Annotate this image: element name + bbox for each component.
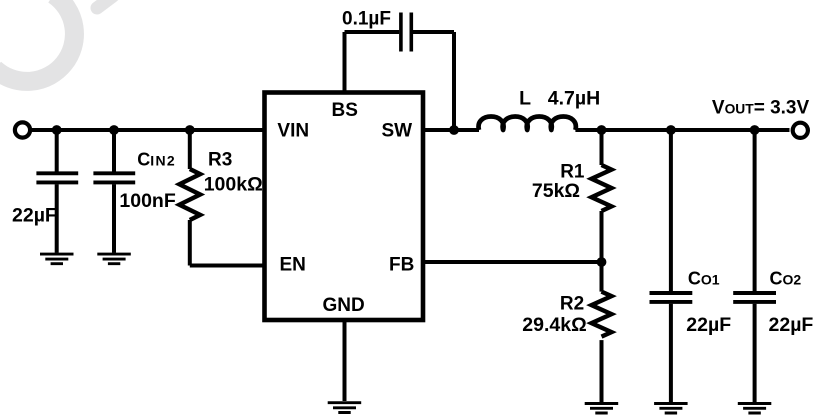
ground CIN1 [40,254,74,264]
svg-text:4.7µH: 4.7µH [548,87,600,109]
svg-text:0.1µF: 0.1µF [342,9,391,30]
input terminal [15,122,30,137]
svg-text:100nF: 100nF [119,190,175,212]
svg-text:R3: R3 [208,149,232,170]
ground CO2 [738,404,772,414]
node dot CIN1 [52,125,62,135]
resistor R3 100k [179,130,200,266]
svg-text:CO2: CO2 [770,268,802,288]
op IC U1 box [265,93,424,321]
capacitor CIN1 22uF [36,130,78,253]
node dot FB [597,257,607,267]
wire inductor to VOUT terminal [575,128,789,132]
wire SW pin to inductor [423,128,479,132]
capacitor bootstrap 0.1uF [345,13,455,131]
wire BS pin up [343,32,347,93]
capacitor CO2 22uF [733,130,776,402]
svg-text:VOUT= 3.3V: VOUT= 3.3V [712,98,810,119]
node dot CO1 [666,125,676,135]
svg-text:SW: SW [382,121,413,142]
capacitor CIN2 100nF [93,130,135,253]
resistor R1 75k [592,130,612,262]
watermark arc [0,0,113,81]
svg-text:75kΩ: 75kΩ [532,180,580,202]
svg-text:22µF: 22µF [686,314,731,336]
svg-text:CO1: CO1 [688,268,720,288]
wire input to VIN [31,128,265,132]
node dot CIN2 [109,125,119,135]
svg-text:VIN: VIN [277,121,309,142]
node dot CO2 [750,125,760,135]
output terminal VOUT [793,123,808,138]
ground GND pin [328,403,362,413]
svg-text:CIN2: CIN2 [137,149,176,169]
wire GND pin down [343,320,347,401]
svg-text:BS: BS [332,100,358,121]
svg-text:GND: GND [323,295,365,316]
resistor R2 29.4k [592,262,612,402]
node dot R3 [185,125,195,135]
svg-text:22µF: 22µF [769,314,814,336]
ground R2 [585,404,619,414]
svg-text:FB: FB [389,254,414,275]
inductor L 4.7uH [479,117,576,131]
ground CO1 [654,404,688,414]
svg-text:EN: EN [280,254,306,275]
wire R3 to EN [190,264,265,268]
node dot SW [449,125,459,135]
svg-text:R2: R2 [560,294,584,315]
node dot R1 [597,125,607,135]
ground CIN2 [97,254,131,264]
svg-text:100kΩ: 100kΩ [204,174,263,196]
svg-text:L: L [519,87,531,109]
svg-text:29.4kΩ: 29.4kΩ [522,314,586,336]
svg-text:22µF: 22µF [12,204,57,226]
capacitor CO1 22uF [650,130,693,402]
wire FB pin [423,260,602,264]
